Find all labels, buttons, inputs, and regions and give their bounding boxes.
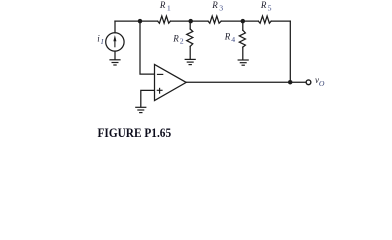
svg-text:1: 1 [167,3,171,12]
svg-text:FIGURE P1.65: FIGURE P1.65 [98,126,172,140]
svg-text:5: 5 [268,3,272,12]
svg-text:4: 4 [231,35,235,44]
svg-text:O: O [319,79,325,88]
svg-text:3: 3 [219,3,223,12]
svg-text:R: R [224,31,231,41]
svg-text:R: R [211,0,218,10]
svg-text:R: R [260,0,267,10]
svg-text:R: R [172,34,179,44]
svg-text:R: R [159,0,166,10]
svg-text:2: 2 [180,37,184,46]
